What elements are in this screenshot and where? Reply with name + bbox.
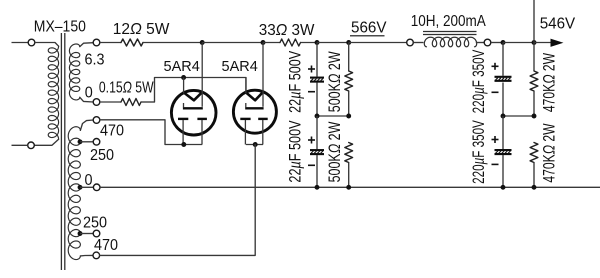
label C1 22uF 500V: [286, 51, 305, 113]
transformer 6.3V heater winding: [69, 44, 79, 100]
wire primary top lead to winding: [35, 43, 59, 47]
wire node A to node B: [202, 42, 263, 44]
wire 0 heater to R 0.15ohm: [100, 101, 121, 103]
label 10H 200mA: [411, 13, 486, 30]
svg-text:0: 0: [85, 171, 93, 189]
terminal 250 top: [93, 139, 100, 146]
svg-text:F 500V: F 500V: [286, 51, 305, 92]
svg-text:470: 470: [100, 122, 124, 140]
wire primary top lead: [12, 42, 29, 44]
svg-text:2W: 2W: [326, 51, 344, 70]
label 470 bottom: [94, 236, 118, 254]
svg-text:470K: 470K: [541, 154, 559, 182]
wire 6.3V winding 0 lead: [80, 97, 93, 102]
svg-text:500K: 500K: [326, 83, 344, 112]
vacuum tube V1 5AR4: [171, 43, 216, 145]
wire 6.3V winding top lead: [80, 43, 93, 47]
wire node D to 566V terminal: [349, 42, 407, 44]
svg-text:Ω: Ω: [276, 22, 288, 39]
terminal primary bottom: [28, 142, 35, 149]
svg-text:250: 250: [83, 214, 107, 232]
svg-text:566V: 566V: [351, 19, 387, 36]
node tube1 bottom junction: [181, 142, 186, 147]
svg-text:2W: 2W: [326, 121, 344, 140]
wire choke terminal to node E: [491, 42, 503, 44]
wire tube1 filament bottom bar: [165, 144, 202, 146]
label C2 22uF 500V: [286, 120, 305, 182]
node tap 0 center: [78, 185, 83, 190]
label C4 220uF 350V: [470, 120, 489, 184]
transformer primary winding: [48, 46, 58, 139]
node mid rail left cap: [315, 114, 320, 119]
svg-text:5AR4: 5AR4: [164, 59, 200, 75]
wire node C down to C1: [316, 43, 318, 77]
wire R2 to ground: [348, 163, 350, 188]
svg-text:33: 33: [259, 22, 276, 39]
resistor R2 500K 2W lower: [345, 143, 353, 163]
wire ground rail: [100, 186, 600, 188]
wire node F down to R3: [533, 43, 535, 72]
node D bleeder 1 junction: [346, 40, 351, 45]
svg-text:2W: 2W: [541, 123, 559, 141]
svg-text:MX–150: MX–150: [34, 18, 86, 36]
svg-text:5W: 5W: [135, 79, 154, 97]
svg-text:0.15: 0.15: [99, 79, 123, 97]
node tube2 bottom junction: [253, 142, 258, 147]
node mid rail right cap: [501, 114, 506, 119]
svg-text:µ: µ: [286, 92, 305, 99]
wire 566V terminal to choke: [413, 42, 423, 44]
wire node D down to R1: [348, 43, 350, 72]
wire tube2 filament bottom bar: [246, 144, 263, 146]
label R1 500K 2W: [326, 51, 344, 113]
svg-text:F 500V: F 500V: [286, 120, 305, 161]
wire primary bottom lead to winding: [34, 139, 58, 145]
transformer T1 core: [61, 33, 64, 270]
label 250 bottom: [83, 214, 107, 232]
wire 6.3V terminal to R 12ohm: [100, 42, 121, 44]
node tap 250 bottom: [78, 231, 83, 236]
wire R 12ohm to node A: [143, 42, 202, 44]
label R4 470K 2W: [541, 123, 559, 182]
capacitor C1 22uF 500V: [308, 66, 324, 92]
terminal primary top: [28, 39, 35, 46]
resistor R4 470K 2W lower: [530, 143, 538, 163]
svg-text:546V: 546V: [540, 15, 576, 32]
label 250 top: [90, 146, 114, 164]
svg-text:µ: µ: [470, 87, 489, 94]
svg-text:5W: 5W: [146, 21, 169, 38]
inductor choke 10H core: [423, 32, 477, 35]
wire C4 to ground: [502, 155, 504, 187]
svg-text:5AR4: 5AR4: [222, 59, 258, 75]
wire primary bottom lead: [12, 144, 28, 146]
wire mid rail to C2: [316, 116, 318, 149]
label 5AR4 V2: [222, 59, 258, 75]
svg-text:Ω: Ω: [541, 74, 559, 83]
node tap 250 top: [78, 139, 83, 144]
terminal choke out: [484, 39, 491, 46]
svg-text:220: 220: [470, 94, 489, 113]
arrow 546V output: [551, 39, 562, 46]
node E output cap junction: [501, 40, 506, 45]
svg-text:10H, 200mA: 10H, 200mA: [411, 13, 486, 30]
wire heater 0.15 corner to tubes: [155, 78, 247, 103]
label 0 center: [85, 171, 93, 189]
svg-text:470K: 470K: [541, 84, 559, 112]
terminal 470 bottom: [93, 252, 100, 259]
wire C3 to mid rail: [502, 83, 504, 117]
svg-text:µ: µ: [286, 161, 305, 168]
wire node C to node D: [317, 42, 349, 44]
wire 470 bottom tap to tube2: [100, 145, 256, 256]
node C filter cap 1 junction: [315, 40, 320, 45]
wire node F up to amp B+: [533, 0, 535, 43]
node B tube2 plate-rail junction: [261, 40, 266, 45]
resistor R3 470K 2W upper: [530, 71, 538, 91]
capacitor C2 22uF 500V: [308, 137, 324, 166]
svg-text:0: 0: [85, 84, 93, 102]
label 0 heater: [85, 84, 93, 102]
node ground C4 bank: [501, 185, 506, 190]
node ground R2 bank: [346, 185, 351, 190]
label 470 top: [100, 122, 124, 140]
resistor R1 500K 2W upper: [345, 71, 353, 91]
wire tap 250 bottom: [80, 233, 93, 235]
wire tap 0 center: [80, 186, 93, 188]
wire node E down to C3: [502, 43, 504, 76]
terminal 0 center: [93, 184, 100, 191]
svg-text:500K: 500K: [326, 153, 344, 182]
wire 470 top tap to tube1: [100, 120, 165, 145]
wire R 33ohm to node C: [301, 42, 318, 44]
svg-text:F 350V: F 350V: [470, 49, 489, 87]
wire mid rail left bank: [317, 115, 349, 117]
node ground R4 bank: [532, 185, 537, 190]
label MX-150: [34, 18, 86, 36]
node mid rail left res: [346, 114, 351, 119]
node tube1 filament top junction: [181, 75, 186, 80]
wire R1 to mid rail: [348, 91, 350, 116]
svg-text:Ω: Ω: [541, 145, 559, 154]
wire node B to R 33ohm: [263, 42, 280, 44]
svg-text:470: 470: [94, 236, 118, 254]
capacitor C3 220uF 350V: [492, 63, 512, 93]
wire mid rail to C4: [502, 116, 504, 149]
svg-text:Ω: Ω: [123, 79, 132, 97]
node A tube1 plate-rail junction: [200, 40, 205, 45]
wire HV winding top lead: [80, 120, 93, 130]
node mid rail right res: [532, 114, 537, 119]
resistor 33ohm 3W: [280, 39, 301, 46]
label 33ohm 3W: [259, 22, 315, 39]
label C3 220uF 350V: [470, 49, 489, 113]
label 12ohm 5W: [113, 21, 170, 38]
wire node F to output arrow: [534, 42, 552, 44]
svg-text:6.3: 6.3: [85, 51, 105, 69]
wire mid rail right bank: [503, 115, 534, 117]
label R3 470K 2W: [541, 53, 559, 112]
transformer HV secondary winding: [68, 127, 80, 260]
label 0.15ohm 5W: [99, 79, 154, 97]
svg-text:2W: 2W: [541, 53, 559, 71]
svg-text:22: 22: [286, 169, 305, 183]
label 566V: [350, 19, 387, 36]
label 5AR4 V1: [164, 59, 200, 75]
label R2 500K 2W: [326, 121, 344, 183]
wire choke to terminal: [476, 42, 484, 44]
svg-text:12: 12: [113, 21, 130, 38]
svg-text:Ω: Ω: [326, 144, 344, 153]
wire R 0.15ohm to corner: [141, 101, 155, 103]
wire C1 to mid rail: [316, 83, 318, 117]
svg-text:Ω: Ω: [326, 74, 344, 83]
label 6.3: [85, 51, 105, 69]
svg-text:220: 220: [470, 164, 489, 183]
wire R3 to mid rail: [533, 91, 535, 116]
resistor 12ohm 5W: [121, 39, 143, 46]
svg-text:Ω: Ω: [130, 21, 142, 38]
inductor choke 10H 200mA: [424, 37, 476, 47]
wire node E to node F: [503, 42, 534, 44]
vacuum tube V2 5AR4: [233, 43, 276, 145]
svg-text:250: 250: [90, 146, 114, 164]
terminal 0 heater: [93, 99, 100, 106]
capacitor C4 220uF 350V: [492, 136, 512, 164]
node F output junction: [532, 40, 537, 45]
terminal 250 bottom: [93, 230, 100, 237]
wire R4 to ground: [533, 163, 535, 188]
wire HV winding bottom lead: [80, 254, 93, 257]
wire tap 250 top: [80, 141, 93, 143]
svg-text:3W: 3W: [292, 22, 315, 39]
svg-text:22: 22: [286, 99, 305, 113]
svg-text:µ: µ: [470, 158, 489, 165]
resistor 0.15ohm 5W: [121, 99, 141, 106]
wire C2 to ground: [316, 155, 318, 187]
label 546V: [540, 15, 576, 32]
node ground C1 bank: [315, 185, 320, 190]
terminal 470 top: [93, 117, 100, 124]
terminal 6.3V top: [93, 39, 100, 46]
svg-text:F 350V: F 350V: [470, 120, 489, 158]
terminal 566V: [407, 39, 414, 46]
